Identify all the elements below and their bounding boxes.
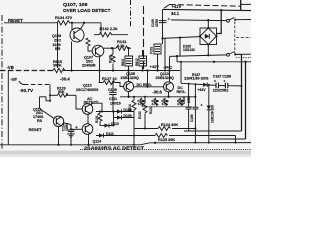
wire Q112 collector corner: [91, 103, 103, 111]
wire row y=131: [184, 130, 242, 132]
wire Q112-Q113 link: [87, 114, 89, 124]
wire Q107 emitter down: [99, 57, 101, 84]
wire AC rail y=20: [171, 19, 227, 22]
resistor R120 vertical 4.7K: [152, 98, 160, 106]
wire +41V rail: [163, 9, 252, 10]
wire Q107 collector row y=48: [104, 47, 117, 49]
wire bridge top feed: [207, 20, 209, 28]
wire corner stub y=100.8: [46, 97, 50, 101]
resistor R134 470: [55, 15, 72, 25]
wire Q106 collector feed from y=56.5: [169, 57, 171, 82]
wire Q105 emitter: [128, 92, 130, 97]
paper background: [0, 0, 251, 157]
label D106 1SS133: [183, 45, 195, 52]
fuse box F101: [150, 44, 162, 71]
resistor R122 vertical 4.7K: [177, 98, 185, 106]
wire ladder row1 y=111.5: [96, 111, 134, 113]
transistor Q112: [82, 104, 93, 115]
label AC DETECT: [84, 97, 99, 104]
resistor R119 vertical 4.7K: [138, 98, 145, 106]
bottom dotted separator: [80, 149, 251, 151]
diode D109: [117, 114, 132, 120]
divider dotted right of S2: [236, 57, 251, 59]
wire heavy drop x=241.5: [241, 54, 243, 131]
label Q111 2SC1740S RS: [33, 107, 44, 122]
title text Q107,108 OVER LOAD DETECT: [63, 2, 111, 13]
capacitor C187: [214, 80, 219, 88]
resistor R140 vertical (Q107 base feed): [86, 38, 92, 51]
wire Q111 base diagonal: [40, 109, 54, 119]
resistor R131 vertical: [95, 110, 102, 125]
wire drop x=235.5: [235, 136, 237, 143]
capacitor C114: [62, 123, 78, 146]
wire Q106 base: [134, 86, 164, 88]
resistor R121 vertical 4.7K: [149, 98, 169, 114]
diode D188 vertical: [207, 85, 215, 144]
label C111 100/16: [109, 97, 121, 106]
wire Q105 base: [120, 86, 124, 88]
resistor R612 fusible box: [135, 50, 147, 71]
label DC REG. (right): [177, 86, 186, 94]
wire drop x=180: [179, 38, 181, 57]
wire rail y=56.4..54.5: [170, 55, 227, 57]
wire DC rail y=38.5 sloped to bridge: [163, 37, 201, 39]
wire Q106 emitter: [168, 92, 170, 97]
wire -VB rail solid run: [63, 70, 180, 72]
divider dash right horizontal: [236, 37, 251, 39]
resistor R124 39K: [134, 123, 195, 130]
wire border drop x=162.5: [162, 9, 164, 44]
diode D108: [117, 108, 132, 114]
wire -VB dashed rail: [0, 70, 53, 72]
transistor Q105: [124, 82, 134, 92]
wire row y=139: [210, 138, 246, 140]
transistor Q108: [70, 23, 84, 42]
wire drop x=50 from -VF: [49, 85, 51, 101]
junction on RESET rail: [71, 22, 73, 24]
wire drop x=39.5 to Q111 base: [39, 97, 41, 109]
resistor R614 vertical ladder right: [128, 96, 136, 146]
wire emitter bus y=96.8: [120, 96, 195, 98]
resistor R130 vertical: [138, 96, 147, 130]
wire drop x=165: [164, 38, 166, 70]
capacitor C116 2/50: [182, 84, 191, 131]
resistor R141 2.2k: [116, 39, 131, 50]
wire ladder row2 y=117.5: [114, 117, 135, 119]
wire bottom bus: [0, 143, 251, 145]
transistor Q111: [53, 116, 63, 126]
label Q105 2SB1329Q: [121, 72, 139, 80]
divider second left vertical: [7, 71, 9, 145]
transistor Q113: [82, 124, 93, 135]
wire resistor bottoms rail y=106.8: [142, 105, 192, 107]
wire left stub of D187: [180, 62, 182, 84]
wire corner to R142 row: [100, 23, 102, 35]
bridge rectifier D101: [199, 27, 218, 46]
label +43V 220/25R2: [197, 88, 228, 93]
wire base drop to Q108: [71, 23, 73, 30]
transistor Q106: [164, 82, 174, 92]
node +41V / -34.1 labels (mid): [150, 64, 173, 70]
ground: [67, 134, 75, 138]
wire -VF dashed rail: [19, 81, 24, 85]
wire heavy drop x=245.5: [245, 62, 247, 139]
resistor R142 2.2k: [94, 26, 128, 37]
wire bridge bottom drop: [207, 45, 209, 56]
diode D110: [100, 122, 119, 128]
label Q110 2SC1740SRS: [76, 84, 99, 92]
resistor R139 vertical: [109, 48, 116, 70]
capacitor C109 (base): [108, 83, 117, 113]
wire Q111 right to C114: [64, 123, 71, 125]
resistor R615 390K on -VB rail: [53, 60, 65, 73]
resistor R127 10: [99, 76, 124, 87]
diode D111: [96, 132, 134, 138]
divider dash top middle: [130, 0, 132, 28]
wire Q111 emitter: [58, 127, 60, 145]
wire Q113 emitter: [88, 134, 90, 145]
wire left column drop x=57.5: [57, 23, 59, 68]
wire Q108 emitter down: [71, 42, 73, 71]
resistor R125 39K: [134, 134, 236, 143]
resistor R611 fusible box: [121, 47, 133, 82]
wire RESET rail y=22.5: [4, 22, 57, 24]
transistor Q107: [92, 45, 104, 57]
wire rail y=61.8: [177, 61, 251, 63]
capacitor C188: [223, 80, 228, 88]
wire heavy corner x=240 top: [240, 0, 242, 10]
label Q106 2SB1329Q: [156, 72, 174, 80]
label Q108 2SC2240BR: [52, 34, 62, 51]
switch S2: [227, 52, 251, 57]
label Q107 2SC2240BR: [82, 56, 96, 68]
border dashed top right: [164, 5, 241, 9]
resistor R129 56K: [50, 86, 76, 97]
diode D187: [203, 83, 207, 88]
capacitor C109 47/50: [151, 18, 170, 27]
wire +43V row: [181, 83, 216, 85]
wire Q113 base: [71, 128, 82, 130]
switch S1: [227, 17, 251, 22]
label R187 1SR139-20S: [184, 73, 209, 80]
wire gang link dashed: [234, 22, 236, 54]
divider dash x=143.5: [143, 6, 145, 71]
wire bridge DC feed: [217, 10, 222, 33]
wire drop x=76 to Q112 base: [76, 95, 82, 109]
divider dash-dot left: [1, 15, 3, 150]
capacitor C186 2/100: [190, 84, 203, 143]
bottom grey band: [0, 151, 251, 155]
bottom band lower light strip: [0, 154, 251, 157]
net +41V 34.1 (top): [171, 4, 181, 16]
